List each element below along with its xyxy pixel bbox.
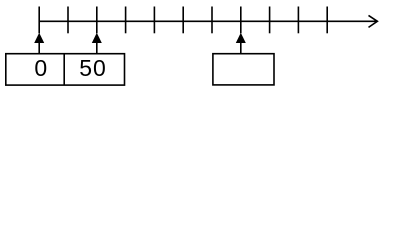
up arrow 3 [236, 33, 246, 54]
tick 10 [297, 7, 299, 34]
tick 5 [153, 7, 155, 34]
tick 6 [182, 7, 184, 34]
up arrow 2 [92, 33, 102, 54]
empty box [213, 54, 274, 85]
box divider [63, 54, 65, 85]
tick 4 [125, 7, 127, 34]
tick 9 [269, 7, 271, 34]
up arrow 1 [34, 33, 44, 54]
tick 11 [326, 7, 328, 34]
number line [39, 20, 377, 22]
svg-text:50: 50 [79, 55, 107, 81]
tick 1 [38, 7, 40, 34]
svg-text:0: 0 [34, 55, 47, 81]
tick 2 [67, 7, 69, 34]
box 0-50 outline [6, 54, 125, 85]
tick 7 [211, 7, 213, 34]
arrowhead [369, 15, 378, 27]
tick 3 [96, 7, 98, 34]
tick 8 [240, 7, 242, 34]
